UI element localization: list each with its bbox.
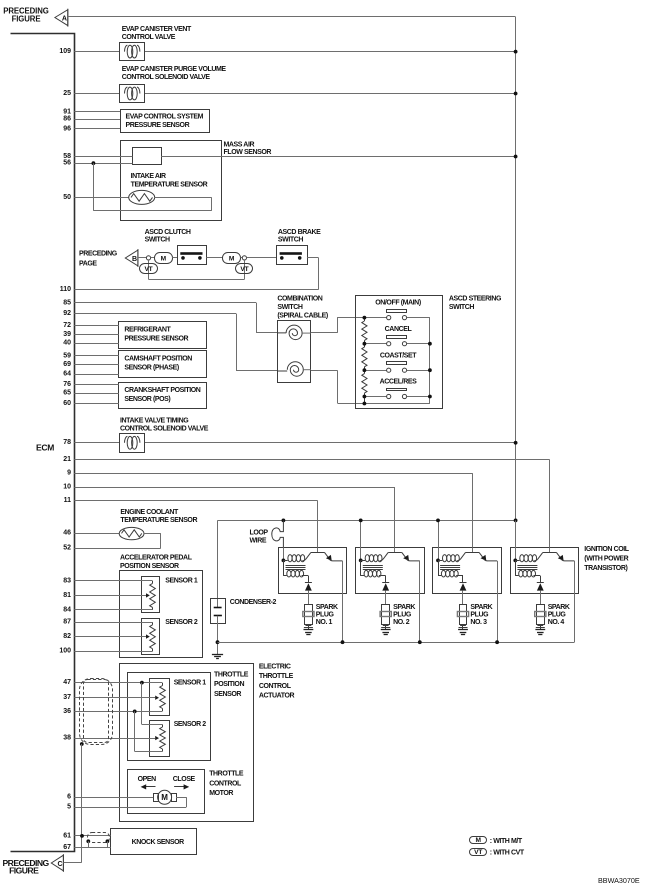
junction pin47: [140, 681, 144, 685]
svg-text:: WITH CVT: : WITH CVT: [490, 850, 525, 857]
wire diode to spark plug 1: [308, 591, 310, 605]
electric throttle control actuator box: [120, 664, 254, 822]
svg-text:MOTOR: MOTOR: [209, 790, 233, 797]
chain bottom junction: [363, 402, 367, 406]
spiral cable 2: [278, 362, 303, 377]
wire pin 76: [74, 384, 119, 386]
svg-text:85: 85: [63, 299, 71, 306]
svg-text:: WITH M/T: : WITH M/T: [490, 838, 523, 845]
APP SENSOR 1 pot box: [142, 577, 160, 613]
svg-text:72: 72: [63, 322, 71, 329]
coil 4 emitter to ground bus: [574, 561, 576, 642]
junction shield drain/pin61: [80, 834, 84, 838]
TPS SENSOR 2 pot box: [150, 721, 170, 757]
svg-text:ASCD BRAKE: ASCD BRAKE: [278, 229, 321, 236]
wire: connector A to supply bus: [68, 16, 516, 18]
svg-text:37: 37: [63, 694, 71, 701]
svg-text:THROTTLE: THROTTLE: [209, 771, 244, 778]
coil 3 secondary winding: [438, 560, 440, 576]
wire element to supply bus: [161, 156, 515, 158]
svg-text:SWITCH: SWITCH: [278, 237, 303, 244]
wire: [307, 257, 318, 259]
EVAP purge volume control solenoid valve: [120, 85, 145, 103]
wire: [151, 257, 155, 259]
combination switch (spiral cable) box: [278, 321, 311, 383]
svg-text:FIGURE: FIGURE: [9, 866, 39, 876]
svg-text:21: 21: [63, 456, 71, 463]
svg-text:25: 25: [63, 90, 71, 97]
svg-text:86: 86: [63, 116, 71, 123]
svg-text:VT: VT: [144, 266, 152, 273]
knock sensor box: [111, 829, 197, 855]
wire pin 11 to ignition coil: [74, 500, 317, 502]
svg-text:65: 65: [63, 390, 71, 397]
CVT marker oval 2: [236, 264, 253, 274]
spark plug NO. 4: [537, 605, 545, 625]
svg-text:EVAP CANISTER VENT: EVAP CANISTER VENT: [122, 26, 192, 33]
svg-text:56: 56: [63, 160, 71, 167]
svg-text:A: A: [62, 16, 67, 23]
ground (spark plug 1): [304, 629, 314, 631]
svg-text:PRESSURE SENSOR: PRESSURE SENSOR: [126, 122, 190, 129]
svg-text:100: 100: [59, 648, 71, 655]
svg-text:REFRIGERANT: REFRIGERANT: [124, 327, 171, 334]
ground (spark plug 3): [458, 629, 468, 631]
wire diode to spark plug 2: [385, 591, 387, 605]
wire diode to spark plug 4: [540, 591, 542, 605]
wire spiral1 out: [311, 332, 337, 334]
wire IAT to return loop: [155, 197, 212, 199]
wire pin 83: [74, 580, 152, 582]
wire solenoid to supply bus: [145, 442, 516, 444]
wire power bus to coil 3: [438, 520, 440, 560]
svg-text:TEMPERATURE SENSOR: TEMPERATURE SENSOR: [120, 517, 197, 524]
contact: [298, 256, 302, 260]
svg-text:78: 78: [63, 439, 71, 446]
ASCD brake switch: [277, 246, 308, 265]
CVT marker oval 1: [140, 264, 158, 274]
emitter arrow: [558, 555, 564, 561]
svg-text:CONTROL VALVE: CONTROL VALVE: [122, 34, 176, 41]
coil 3 core: [440, 565, 460, 567]
wire pin 65: [74, 393, 119, 395]
svg-text:38: 38: [63, 735, 71, 742]
primary junction: [513, 559, 517, 563]
ground (spark plug 2): [381, 629, 391, 631]
wire pin91: [74, 111, 120, 113]
svg-text:(SPIRAL CABLE): (SPIRAL CABLE): [277, 312, 327, 319]
primary junction: [359, 559, 363, 563]
legend CVT: [470, 849, 487, 856]
svg-text:60: 60: [63, 400, 71, 407]
coil 3 emitter to ground bus: [497, 561, 499, 642]
condenser-2: [211, 599, 226, 624]
svg-text:76: 76: [63, 381, 71, 388]
coil 2 emitter to ground bus: [419, 561, 421, 642]
spark plug NO. 1: [305, 605, 313, 625]
wiper arrow: [146, 634, 150, 638]
svg-text:ACCELERATOR PEDAL: ACCELERATOR PEDAL: [120, 555, 193, 562]
wire to ECM pin 110: [74, 289, 318, 291]
svg-text:CRANKSHAFT POSITION: CRANKSHAFT POSITION: [124, 387, 200, 394]
wire return to pin56: [93, 163, 95, 211]
svg-text:FLOW SENSOR: FLOW SENSOR: [224, 149, 272, 156]
svg-text:52: 52: [63, 545, 71, 552]
svg-text:COMBINATION: COMBINATION: [277, 295, 322, 302]
svg-text:SENSOR (POS): SENSOR (POS): [124, 396, 170, 403]
coil 1 emitter to ground bus: [342, 561, 344, 642]
chain tap: [363, 395, 367, 399]
ASCD clutch switch: [178, 246, 207, 265]
wire CVT bypass left: [148, 260, 150, 279]
wire pin 81 (wiper): [74, 595, 146, 597]
coil 3 diode: [462, 576, 464, 583]
svg-text:50: 50: [63, 194, 71, 201]
svg-text:SENSOR 2: SENSOR 2: [165, 619, 198, 626]
svg-text:SPARK: SPARK: [548, 604, 570, 611]
svg-text:39: 39: [63, 331, 71, 338]
wire pin 67: [74, 847, 110, 849]
svg-text:M: M: [161, 793, 168, 802]
svg-text:36: 36: [63, 708, 71, 715]
svg-text:TRANSISTOR): TRANSISTOR): [584, 565, 627, 572]
wire pin 6: [74, 797, 153, 799]
svg-text:69: 69: [63, 361, 71, 368]
wire: supply bus vertical x=516: [515, 17, 517, 520]
REFRIGERANT PRESSURE SENSOR box: [119, 322, 207, 349]
wire pin 21 to ignition coil: [74, 459, 549, 461]
wire pin 36: [74, 711, 162, 713]
coil 4 primary winding: [515, 560, 519, 562]
svg-text:64: 64: [63, 371, 71, 378]
wire diode to spark plug 3: [462, 591, 464, 605]
wiper arrow: [146, 593, 150, 597]
svg-text:PLUG: PLUG: [393, 611, 412, 618]
wire: [256, 303, 258, 333]
shield drain junction: [80, 742, 84, 746]
wire pin 10 to ignition coil: [74, 487, 395, 489]
wire pin56 to element: [74, 163, 132, 165]
svg-text:LOOP: LOOP: [250, 529, 269, 536]
svg-text:67: 67: [63, 844, 71, 851]
svg-text:10: 10: [63, 484, 71, 491]
svg-text:SWITCH: SWITCH: [277, 304, 302, 311]
resistor chain R1-R3: [362, 321, 367, 340]
wire: [206, 257, 222, 259]
svg-text:ACCEL/RES: ACCEL/RES: [380, 379, 417, 386]
svg-text:109: 109: [59, 48, 71, 55]
coil 1 primary winding: [283, 560, 287, 562]
svg-text:TEMPERATURE SENSOR: TEMPERATURE SENSOR: [131, 181, 208, 188]
wire pin 9 to ignition coil: [74, 473, 472, 475]
CRANKSHAFT POSITION SENSOR (POS) box: [119, 383, 207, 409]
wire pin58 to element: [74, 156, 132, 158]
intake air temperature sensor (thermistor): [129, 190, 155, 204]
svg-text:BBWA3070E: BBWA3070E: [598, 876, 640, 885]
throttle position sensor box: [128, 673, 211, 761]
svg-text:ON/OFF (MAIN): ON/OFF (MAIN): [375, 300, 421, 307]
shield tap 2: [106, 839, 110, 843]
wire pin 39: [74, 334, 119, 336]
shield tap 1: [86, 839, 90, 843]
svg-text:THROTTLE: THROTTLE: [214, 672, 249, 679]
wire power bus to coil 4: [515, 520, 517, 560]
wire pin 60: [74, 403, 119, 405]
chain tap: [363, 316, 367, 320]
junction bus/pin25: [514, 92, 518, 96]
svg-text:CANCEL: CANCEL: [385, 326, 413, 333]
wire pin 37 (wiper1): [74, 697, 155, 699]
arrow close (right): [174, 786, 184, 788]
svg-text:CAMSHAFT POSITION: CAMSHAFT POSITION: [124, 356, 192, 363]
wire to spiral cable 2: [236, 370, 278, 372]
svg-text:47: 47: [63, 679, 71, 686]
svg-text:SENSOR 1: SENSOR 1: [174, 680, 207, 687]
wire: [337, 371, 339, 404]
wire: [241, 257, 243, 259]
wire pin 38 (wiper2): [74, 738, 155, 740]
contact: [181, 256, 185, 260]
wire pin50 to IAT: [74, 197, 128, 199]
coil 4 power transistor Q4: [549, 547, 551, 552]
APP SENSOR 2 pot box: [142, 619, 160, 655]
svg-text:84: 84: [63, 606, 71, 613]
svg-text:9: 9: [67, 470, 71, 477]
svg-text:EVAP CONTROL SYSTEM: EVAP CONTROL SYSTEM: [126, 114, 204, 121]
svg-text:INTAKE AIR: INTAKE AIR: [131, 173, 166, 180]
M/T marker oval: [155, 253, 173, 264]
coil 2 diode: [385, 576, 387, 583]
svg-text:82: 82: [63, 633, 71, 640]
emitter arrow: [481, 555, 487, 561]
svg-text:CONDENSER-2: CONDENSER-2: [230, 599, 277, 606]
svg-text:(WITH POWER: (WITH POWER: [584, 555, 628, 562]
wire: [172, 257, 177, 259]
ignition coil U2 box: [356, 548, 425, 594]
wire: [247, 257, 277, 259]
CAMSHAFT POSITION SENSOR (PHASE) box: [119, 351, 207, 378]
shielded harness (TPS) dashed: [80, 679, 113, 745]
motor brush left: [154, 794, 159, 802]
svg-text:SPARK: SPARK: [470, 604, 492, 611]
EVAP canister vent control valve (solenoid): [120, 43, 145, 61]
steering switch bottom wire: [364, 403, 430, 405]
accelerator pedal position sensor box: [120, 571, 203, 658]
wire spiral2 out: [311, 370, 338, 372]
wire to chain bottom: [338, 403, 365, 405]
contact: [198, 256, 202, 260]
wire to resistor chain top: [337, 317, 364, 319]
wire pin 87: [74, 622, 152, 624]
M/T marker oval 2: [223, 253, 241, 264]
coil 4 core: [517, 565, 537, 567]
coil 1 power transistor Q1: [317, 547, 319, 552]
svg-text:SENSOR 2: SENSOR 2: [174, 721, 207, 728]
svg-text:SENSOR (PHASE): SENSOR (PHASE): [124, 364, 178, 371]
svg-text:SENSOR: SENSOR: [214, 691, 241, 698]
preceding-figure connector C: [51, 855, 63, 871]
connector circle (M/T vs CVT split): [146, 256, 150, 260]
svg-text:ELECTRIC: ELECTRIC: [259, 664, 291, 671]
svg-text:6: 6: [67, 794, 71, 801]
svg-text:PRESSURE SENSOR: PRESSURE SENSOR: [124, 336, 188, 343]
coil 4 secondary winding: [515, 560, 517, 576]
svg-text:87: 87: [63, 619, 71, 626]
steering switch right bus: [429, 318, 431, 404]
wire: [211, 197, 213, 210]
svg-text:46: 46: [63, 530, 71, 537]
svg-text:PLUG: PLUG: [548, 611, 567, 618]
junction bus/pin109: [514, 50, 518, 54]
wire pin85: [74, 302, 256, 304]
junction loop wire: [282, 519, 286, 523]
svg-text:SPARK: SPARK: [393, 604, 415, 611]
svg-text:92: 92: [63, 310, 71, 317]
svg-text:CONTROL SOLENOID VALVE: CONTROL SOLENOID VALVE: [122, 74, 211, 81]
preceding-figure connector A: [55, 10, 68, 26]
svg-text:OPEN: OPEN: [138, 776, 157, 783]
wire pin 61: [74, 835, 110, 837]
svg-text:FIGURE: FIGURE: [12, 15, 41, 24]
svg-text:VT: VT: [240, 266, 248, 273]
condenser plate 1: [214, 607, 222, 609]
wire B to circle1: [138, 257, 147, 259]
chain tap: [363, 368, 367, 372]
legend M/T: [470, 837, 487, 844]
contact: [280, 256, 284, 260]
junction pin56/IAT return: [92, 161, 96, 165]
svg-text:IGNITION COIL: IGNITION COIL: [584, 546, 629, 553]
wire pin 69: [74, 364, 119, 366]
coil 2 secondary winding: [360, 560, 362, 576]
ignition coil U4 box: [511, 548, 579, 594]
connector circle 2: [242, 256, 246, 260]
svg-text:PRECEDING: PRECEDING: [79, 250, 118, 257]
condenser plate 2: [214, 615, 222, 617]
ASCD steering switch box: [356, 296, 443, 409]
mass air flow sensor box: [121, 141, 222, 221]
svg-text:ACTUATOR: ACTUATOR: [259, 692, 295, 699]
wire pin 100: [74, 651, 152, 653]
ignition coil U1 box: [279, 548, 347, 594]
svg-text:PLUG: PLUG: [470, 611, 489, 618]
throttle control motor box: [128, 770, 205, 814]
junction bus: [514, 519, 518, 523]
brake switch bar: [280, 252, 302, 255]
wire pin 72: [74, 325, 119, 327]
shielded cable (knock) dashed: [88, 833, 110, 843]
svg-text:CONTROL: CONTROL: [209, 780, 242, 787]
svg-text:WIRE: WIRE: [250, 537, 267, 544]
wire: [337, 318, 339, 333]
svg-text:ECM: ECM: [36, 443, 54, 453]
wire pin 64: [74, 374, 119, 376]
clutch switch bar: [180, 252, 202, 255]
shield drain wire down: [81, 744, 83, 862]
ignition coil U3 box: [433, 548, 502, 594]
svg-text:B: B: [132, 256, 137, 263]
wire power bus to coil 2: [360, 520, 362, 560]
svg-text:PAGE: PAGE: [79, 260, 97, 267]
svg-text:5: 5: [67, 804, 71, 811]
preceding-page connector B: [125, 250, 138, 266]
svg-text:NO. 2: NO. 2: [393, 619, 410, 626]
svg-text:61: 61: [63, 832, 71, 839]
wire pin86: [74, 119, 120, 121]
EVAP control system pressure sensor: [121, 110, 210, 133]
svg-text:CONTROL: CONTROL: [259, 683, 292, 690]
svg-text:11: 11: [64, 497, 72, 504]
junction ground bus: [216, 640, 220, 644]
wire bus to condenser-2: [217, 520, 219, 607]
svg-text:NO. 4: NO. 4: [548, 619, 565, 626]
coil 1 core: [286, 565, 306, 567]
emitter arrow: [403, 555, 409, 561]
chain tap: [363, 342, 367, 346]
wire pin78: [74, 442, 119, 444]
wire pin 47: [74, 682, 162, 684]
TPS SENSOR 1 pot box: [150, 679, 170, 716]
ignition power bus: [218, 520, 516, 522]
svg-text:81: 81: [63, 592, 71, 599]
svg-text:SPARK: SPARK: [316, 604, 338, 611]
svg-text:KNOCK SENSOR: KNOCK SENSOR: [132, 839, 184, 846]
wire loop wire to coil 1: [283, 547, 285, 560]
svg-text:EVAP CANISTER PURGE VOLUME: EVAP CANISTER PURGE VOLUME: [122, 66, 227, 73]
primary junction: [436, 559, 440, 563]
junction bus/pin58: [514, 155, 518, 159]
coil 3 primary winding: [438, 560, 442, 562]
loop wire symbol: [272, 520, 284, 547]
spark plug NO. 2: [382, 605, 390, 625]
svg-text:NO. 3: NO. 3: [470, 619, 487, 626]
svg-text:40: 40: [63, 340, 71, 347]
svg-text:POSITION: POSITION: [214, 681, 244, 688]
wire solenoid to supply bus: [145, 93, 516, 95]
wire pin 40: [74, 343, 119, 345]
junction bus/pin78: [514, 441, 518, 445]
wire pin92: [74, 313, 236, 315]
wire pin109 to valve: [74, 51, 119, 53]
arrow open (left): [146, 786, 156, 788]
wire down to pin110: [318, 258, 320, 290]
spiral cable 1: [278, 325, 302, 340]
svg-text:C: C: [58, 861, 63, 868]
wire C to shield drain: [63, 862, 81, 864]
ground (condenser): [212, 654, 223, 656]
wire pin 82 (wiper): [74, 636, 146, 638]
coil 2 primary winding: [361, 560, 365, 562]
condenser lead to ground bus: [217, 616, 219, 655]
wire CVT bypass bottom: [149, 279, 245, 281]
svg-text:ASCD STEERING: ASCD STEERING: [449, 296, 502, 303]
svg-text:ASCD CLUTCH: ASCD CLUTCH: [145, 229, 191, 236]
wire pin 59: [74, 355, 119, 357]
coil 2 core: [363, 565, 383, 567]
wire pin46: [74, 533, 119, 535]
svg-text:INTAKE VALVE TIMING: INTAKE VALVE TIMING: [120, 417, 189, 424]
motor brush right: [172, 794, 177, 802]
ground (spark plug 4): [535, 629, 545, 631]
svg-text:110: 110: [60, 286, 71, 293]
wire pin25 to solenoid: [74, 93, 119, 95]
wire pin96: [74, 128, 120, 130]
svg-text:VT: VT: [474, 849, 482, 856]
svg-text:POSITION SENSOR: POSITION SENSOR: [120, 563, 179, 570]
wire: [236, 314, 238, 371]
svg-text:SWITCH: SWITCH: [449, 304, 474, 311]
svg-text:NO. 1: NO. 1: [316, 619, 333, 626]
